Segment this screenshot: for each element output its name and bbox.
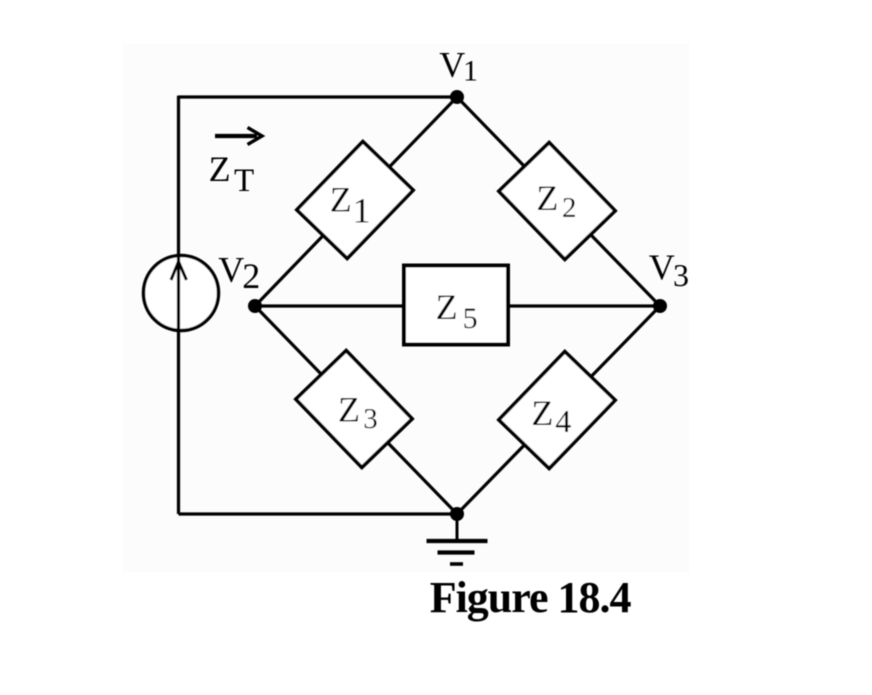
svg-text:3: 3	[363, 403, 378, 435]
svg-text:2: 2	[242, 256, 260, 296]
svg-text:1: 1	[353, 191, 371, 231]
svg-text:1: 1	[463, 54, 478, 87]
svg-text:5: 5	[463, 302, 478, 335]
svg-text:V: V	[218, 249, 244, 289]
svg-text:V: V	[439, 44, 465, 84]
svg-text:Z: Z	[436, 287, 458, 327]
svg-text:3: 3	[673, 257, 689, 293]
svg-text:Z: Z	[338, 389, 360, 429]
svg-text:Z: Z	[531, 393, 553, 433]
svg-text:2: 2	[562, 192, 577, 224]
svg-text:Figure 18.4: Figure 18.4	[430, 573, 632, 622]
svg-text:T: T	[234, 163, 254, 199]
svg-text:V: V	[649, 247, 675, 287]
svg-text:Z: Z	[536, 178, 558, 218]
svg-text:Z: Z	[209, 149, 231, 189]
svg-text:4: 4	[555, 403, 571, 439]
svg-text:Z: Z	[330, 180, 352, 220]
